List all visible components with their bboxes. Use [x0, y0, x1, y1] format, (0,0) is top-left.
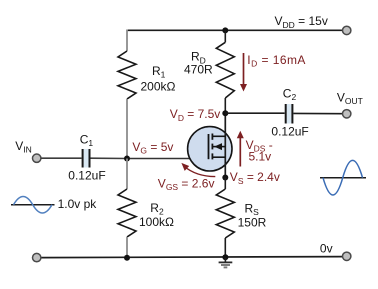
- transistor Q1 channel segment body: [211, 144, 213, 150]
- wire C2 to output: [293, 112, 342, 114]
- transistor Q1 body arrow: [214, 143, 222, 150]
- wire bottom 0v rail: [41, 257, 342, 258]
- waveform input sine: [14, 197, 53, 214]
- resistor R2 top lead: [126, 159, 128, 190]
- resistor RS: [216, 189, 234, 238]
- terminal VOUT: [343, 110, 351, 118]
- node VG junction: [124, 156, 130, 162]
- terminal 0v right: [343, 252, 351, 260]
- waveform output axis: [320, 177, 366, 179]
- wire RD bottom lead: [224, 98, 226, 113]
- wire R2 bottom lead: [126, 237, 128, 258]
- svg-text:ID = 16mA: ID = 16mA: [247, 53, 306, 69]
- capacitor C2: [286, 104, 293, 124]
- wire R1 top lead: [126, 30, 128, 52]
- svg-text:VGS = 2.6v: VGS = 2.6v: [158, 176, 215, 192]
- wire RS top lead: [224, 178, 226, 190]
- arrow VGS curved: [181, 163, 215, 177]
- node VD junction: [222, 110, 228, 116]
- svg-text:VS = 2.4v: VS = 2.4v: [230, 170, 280, 186]
- waveform input axis: [11, 204, 55, 206]
- svg-text:5.1v: 5.1v: [249, 150, 272, 164]
- transistor Q1 channel segment drain: [211, 134, 213, 140]
- terminal 0v left: [33, 253, 41, 261]
- svg-text:0.12uF: 0.12uF: [271, 125, 308, 139]
- wire R1 bottom lead: [126, 99, 128, 159]
- svg-text:200kΩ: 200kΩ: [141, 80, 176, 94]
- node R2 ground junction: [124, 255, 130, 261]
- svg-text:C1: C1: [80, 133, 94, 149]
- wire C1 to gate junction: [91, 157, 128, 159]
- terminal VIN: [33, 154, 41, 162]
- wire RD top lead: [224, 30, 226, 42]
- wire drain to source path: [224, 113, 226, 177]
- resistor R2: [118, 189, 136, 237]
- wire top supply rail: [127, 29, 343, 31]
- resistor R1: [118, 51, 136, 99]
- node VS junction: [222, 175, 228, 181]
- node RS ground junction: [222, 254, 228, 260]
- transistor Q1 source stub: [212, 156, 225, 158]
- arrow VDS: [237, 131, 244, 167]
- transistor Q1 drain stub: [212, 135, 225, 137]
- wire drain to C2: [225, 112, 284, 114]
- svg-text:1.0v pk: 1.0v pk: [58, 197, 98, 211]
- svg-text:150R: 150R: [238, 215, 267, 229]
- svg-text:470R: 470R: [184, 62, 213, 76]
- svg-text:0.12uF: 0.12uF: [68, 169, 105, 183]
- svg-text:100kΩ: 100kΩ: [139, 215, 174, 229]
- transistor Q1 channel segment source: [211, 153, 213, 159]
- node VDD RD junction: [222, 27, 228, 33]
- capacitor C1: [83, 149, 90, 168]
- transistor Q1 gate bar: [208, 134, 210, 159]
- arrow ID current: [240, 53, 247, 92]
- svg-text:R1: R1: [152, 64, 166, 80]
- wire input to C1: [41, 157, 81, 159]
- transistor Q1 MOSFET body: [188, 127, 232, 171]
- transistor Q1 body stub: [212, 146, 225, 148]
- waveform output sine: [323, 160, 363, 195]
- wire RS bottom lead: [224, 238, 226, 257]
- svg-text:VIN: VIN: [15, 139, 32, 155]
- svg-text:VDD = 15v: VDD = 15v: [275, 14, 328, 30]
- wire gate: [127, 158, 209, 160]
- svg-text:0v: 0v: [320, 241, 333, 255]
- svg-text:VOUT: VOUT: [337, 91, 363, 107]
- svg-text:C2: C2: [283, 86, 297, 102]
- resistor RD: [216, 42, 234, 98]
- ground: [219, 257, 233, 267]
- terminal VDD: [343, 26, 351, 34]
- svg-text:VD = 7.5v: VD = 7.5v: [170, 107, 221, 123]
- svg-text:VG = 5v: VG = 5v: [132, 140, 173, 156]
